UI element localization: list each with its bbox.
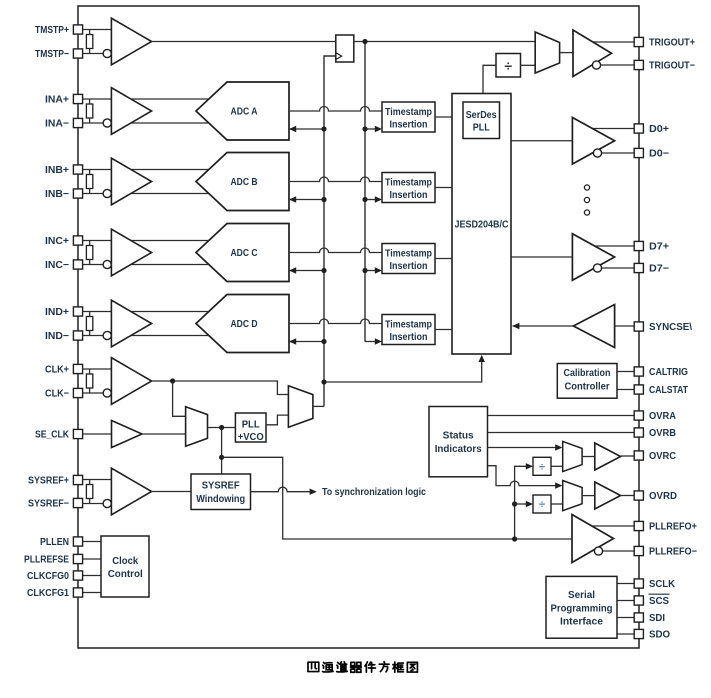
pin PLLEN <box>73 537 82 546</box>
svg-text:ADC C: ADC C <box>231 248 258 259</box>
junction channel B at clock bus <box>321 197 326 202</box>
inverting-input bubble of IND buffer <box>103 331 111 339</box>
pin SCS <box>634 596 643 605</box>
pin CALTRIG <box>634 367 643 376</box>
wire resistor top lead <box>89 369 91 374</box>
resistor IND termination <box>86 317 92 331</box>
wire Calibration Controller to CALTRIG <box>617 371 635 373</box>
wire Timestamp Insertion A to JESD204 block <box>435 116 452 118</box>
wire INB positive signal to ADC <box>83 169 221 171</box>
pin D7+ <box>634 241 643 250</box>
pin SYSREF- <box>73 498 82 507</box>
resistor input termination <box>86 485 92 499</box>
svg-text:Status: Status <box>443 430 474 441</box>
buffer amplifier CLK <box>111 358 151 405</box>
arrow to synchronization logic <box>310 489 317 495</box>
ADC D block <box>196 295 289 353</box>
pin SE_CLK <box>73 429 82 438</box>
buffer amplifier INA <box>111 88 151 135</box>
buffer OVRC output driver <box>595 443 621 470</box>
buffer amplifier INB <box>111 158 151 205</box>
svg-text:Windowing: Windowing <box>196 494 245 505</box>
output driver PLLREFO <box>572 515 614 563</box>
svg-text:TMSTP−: TMSTP− <box>35 49 69 60</box>
svg-text:SYNCSE\: SYNCSE\ <box>649 322 692 333</box>
svg-text:PLLEN: PLLEN <box>40 537 69 548</box>
device boundary box <box>78 6 639 648</box>
wire mux A output to PLL+VCO <box>208 427 236 429</box>
wire SPI to SCS <box>617 600 635 602</box>
pin TRIGOUT- <box>634 60 643 69</box>
wire resistor leads INC <box>89 241 91 265</box>
block Timestamp Insertion C <box>382 244 435 274</box>
resistor INA termination <box>86 104 92 118</box>
pin TMSTP+ <box>73 25 82 34</box>
block Serial Programming Interface <box>546 576 617 638</box>
svg-text:Timestamp: Timestamp <box>385 249 432 260</box>
pin INC- <box>73 260 82 269</box>
svg-text:CLK−: CLK− <box>45 389 69 400</box>
wire clock bus to ADC D clock input <box>289 341 324 343</box>
pin INA- <box>73 118 82 127</box>
wire SPI to SDI <box>617 617 635 619</box>
pin INB- <box>73 189 82 198</box>
wire clock branch down to SYSREF windowing <box>221 428 223 475</box>
wire divider feed branch to divider 2 <box>515 503 527 505</box>
arrow into OVRD mux upper input <box>555 482 562 488</box>
pin OVRC <box>634 451 643 460</box>
svg-text:Calibration: Calibration <box>564 368 611 379</box>
wire inverting input <box>83 503 121 505</box>
svg-text:ADC B: ADC B <box>231 177 258 188</box>
wire clock bus to JESD204 bottom <box>324 361 482 383</box>
svg-text:SYSREF: SYSREF <box>202 481 240 492</box>
buffer OVRD output driver <box>595 482 621 509</box>
pin PLLREFO+ <box>634 521 643 530</box>
pin OVRD <box>634 491 643 500</box>
svg-text:ADC D: ADC D <box>231 319 258 330</box>
divider block 2 (OVRD) <box>533 495 551 513</box>
wire Status Indicators to OVRA <box>488 415 635 417</box>
svg-text:PLLREFO−: PLLREFO− <box>649 547 697 558</box>
wire divider feed from clock line up to dividers <box>515 466 527 539</box>
ADC B block <box>196 153 289 211</box>
junction channel B at timestamp bus <box>362 197 367 202</box>
wire non-inverting input <box>83 368 121 370</box>
pin OVRA <box>634 411 643 420</box>
pin PLLREFSE <box>73 554 82 563</box>
wire SerDes PLL to divider <box>483 65 496 102</box>
wire D7+ output <box>585 245 635 247</box>
svg-text:OVRC: OVRC <box>649 451 676 462</box>
wire inverting input <box>83 53 121 55</box>
block Timestamp Insertion D <box>382 315 435 345</box>
svg-text:TRIGOUT+: TRIGOUT+ <box>649 38 695 49</box>
svg-text:Programming: Programming <box>551 603 613 614</box>
wire PLLREFO- output <box>594 550 635 552</box>
buffer amplifier IND <box>111 300 151 347</box>
pin INB+ <box>73 165 82 174</box>
pin IND+ <box>73 307 82 316</box>
svg-text:INA+: INA+ <box>45 95 69 106</box>
inverting output bubble PLLREFO- <box>594 547 602 555</box>
svg-text:OVRB: OVRB <box>649 428 676 439</box>
wire INC positive signal to ADC <box>83 240 221 242</box>
svg-text:OVRD: OVRD <box>649 491 677 502</box>
svg-text:CLKCFG1: CLKCFG1 <box>27 588 69 599</box>
wire TRIGOUT- output <box>594 64 635 66</box>
wire resistor leads IND <box>89 312 91 336</box>
wire CLKCFG1 pin to Clock Control <box>83 592 102 594</box>
wire SPI to SDO <box>617 633 635 635</box>
wire timestamp bus to Timestamp Insertion B <box>365 199 377 201</box>
pin OVRB <box>634 428 643 437</box>
mux OVRD select <box>563 481 582 511</box>
svg-text:SDI: SDI <box>649 613 665 624</box>
pin CLK+ <box>73 364 82 373</box>
svg-text:D7+: D7+ <box>649 242 669 253</box>
svg-text:INC−: INC− <box>45 260 69 271</box>
wire clock bus to ADC C clock input <box>289 270 324 272</box>
arrow into ADC C right edge <box>289 267 296 273</box>
block Calibration Controller <box>557 364 617 399</box>
svg-text:SCLK: SCLK <box>649 579 676 590</box>
clock wedge on flip-flop <box>336 53 342 60</box>
wire resistor leads INA <box>89 99 91 123</box>
arrow into JESD204 bottom <box>479 355 485 362</box>
inverting output bubble TRIGOUT- <box>592 61 600 69</box>
svg-text:D0+: D0+ <box>649 124 669 135</box>
svg-text:Clock: Clock <box>112 556 138 567</box>
pin CLKCFG0 <box>73 571 82 580</box>
wire PLLREFO+ output <box>585 525 635 527</box>
wire Timestamp Insertion C to JESD204 block <box>435 258 452 260</box>
pin TRIGOUT+ <box>634 37 643 46</box>
resistor INC termination <box>86 246 92 260</box>
arrow into ADC A right edge <box>289 126 296 132</box>
svg-text:INA−: INA− <box>45 119 69 130</box>
svg-text:TRIGOUT−: TRIGOUT− <box>649 61 695 72</box>
block Clock Control <box>101 536 149 597</box>
wire timestamp bus to Timestamp Insertion A <box>365 128 377 130</box>
wire D0- output <box>592 152 635 154</box>
wire JESD204 to D0 driver <box>511 140 573 142</box>
pin CLKCFG1 <box>73 588 82 597</box>
mux A clock source select <box>186 407 208 447</box>
wire mux B output to clock bus <box>313 405 324 407</box>
wire IND positive signal to ADC <box>83 311 221 313</box>
ellipsis dots between D0 and D7 lanes <box>584 185 589 215</box>
wire TMSTP buffer output to trigger output path <box>152 41 536 43</box>
block SerDes PLL <box>463 102 500 139</box>
wire SE_CLK pin to buffer <box>83 433 112 435</box>
wire resistor bottom lead <box>89 388 91 393</box>
svg-text:SYSREF−: SYSREF− <box>28 499 69 510</box>
block SYSREF Windowing <box>191 474 251 510</box>
wire Status Indicators to OVRB <box>488 432 635 434</box>
pin SDO <box>634 629 643 638</box>
wire SYSREF windowing output to synchronization logic (hop over clock line) <box>251 487 310 492</box>
wire resistor top lead <box>89 480 91 485</box>
wire Timestamp Insertion B to JESD204 block <box>435 187 452 189</box>
output driver D7 <box>572 234 614 281</box>
buffer amplifier INC <box>111 229 151 276</box>
junction divider feed at clock line <box>512 536 517 541</box>
junction channel D at clock bus <box>321 339 326 344</box>
mux trigger output select <box>535 32 559 73</box>
pin CALSTAT <box>634 385 643 394</box>
buffer SE_CLK <box>112 421 143 448</box>
wire resistor bottom lead <box>89 499 91 504</box>
resistor INB termination <box>86 175 92 189</box>
inverting output bubble D7- <box>593 264 601 272</box>
wire PLLREFSE pin to Clock Control <box>83 558 102 560</box>
arrow into ADC D right edge <box>289 338 296 344</box>
junction mux A output node <box>219 425 224 430</box>
svg-text:CLKCFG0: CLKCFG0 <box>27 571 69 582</box>
svg-text:INB−: INB− <box>45 189 69 200</box>
pin D7- <box>634 263 643 272</box>
inverting-input bubble of INB buffer <box>103 189 111 197</box>
arrow into divider 2 <box>526 501 533 507</box>
pin SCLK <box>634 579 643 588</box>
wire D0+ output <box>585 128 635 130</box>
arrow into Timestamp Insertion B <box>375 196 382 202</box>
block PLL+VCO <box>235 413 266 443</box>
resistor input termination <box>86 35 92 49</box>
svg-text:Indicators: Indicators <box>435 444 482 455</box>
junction flip-flop output node <box>362 39 367 44</box>
wire JESD204 to D7 driver <box>511 256 573 258</box>
pin IND- <box>73 331 82 340</box>
output driver D0 <box>572 117 614 164</box>
svg-text:ADC A: ADC A <box>231 107 258 118</box>
wire INB negative signal to ADC <box>83 193 221 195</box>
block Timestamp Insertion A <box>382 102 435 132</box>
svg-text:PLL: PLL <box>242 420 260 431</box>
inverting-input bubble of INC buffer <box>103 260 111 268</box>
junction divider feed at divider 2 <box>512 501 517 506</box>
wire non-inverting input <box>83 479 121 481</box>
svg-text:Insertion: Insertion <box>390 332 428 343</box>
wire SYNCSE buffer output into JESD204 <box>513 325 575 327</box>
svg-text:IND−: IND− <box>45 331 69 342</box>
pin SYSREF+ <box>73 475 82 484</box>
svg-text:PLLREFO+: PLLREFO+ <box>649 522 697 533</box>
wire divider 2 to OVRD mux lower input <box>551 503 563 505</box>
arrow into divider 1 <box>526 463 533 469</box>
svg-text:CALTRIG: CALTRIG <box>649 367 688 378</box>
svg-text:÷: ÷ <box>539 461 545 473</box>
svg-text:CLK+: CLK+ <box>45 365 69 376</box>
block JESD204B/C <box>452 94 511 355</box>
wire OVRD driver to pin <box>621 495 635 497</box>
arrow into Timestamp Insertion A <box>375 126 382 132</box>
wire non-inverting input <box>83 29 121 31</box>
wire ADC D output to Timestamp Insertion (hops over buses) <box>289 319 382 323</box>
pin D0- <box>634 148 643 157</box>
arrow into JESD204 right edge (SYNCSE) <box>512 323 519 329</box>
wire clock bus from clock mux up to flip-flop clock input <box>324 56 336 406</box>
wire Status Indicators to OVRC mux <box>488 447 557 449</box>
inverting-input bubble of TMSTP buffer <box>103 49 111 57</box>
svg-text:PLL: PLL <box>473 123 490 134</box>
arrow into Timestamp Insertion C <box>375 267 382 273</box>
pin INA+ <box>73 94 82 103</box>
wire resistor top lead <box>89 30 91 35</box>
svg-text:+VCO: +VCO <box>238 432 264 443</box>
wire ADC C output to Timestamp Insertion (hops over buses) <box>289 248 382 253</box>
svg-text:SYSREF+: SYSREF+ <box>28 476 69 487</box>
svg-text:Insertion: Insertion <box>390 120 428 131</box>
junction channel C at clock bus <box>321 268 326 273</box>
wire trigger mux to TRIGOUT driver <box>560 52 573 54</box>
wire IND negative signal to ADC <box>83 335 221 337</box>
wire clock branch to PLLREFO path <box>222 457 572 539</box>
svg-text:Timestamp: Timestamp <box>385 178 432 189</box>
ADC A block <box>196 82 289 140</box>
wire timestamp bus to Timestamp Insertion C <box>365 270 377 272</box>
wire CLKCFG0 pin to Clock Control <box>83 575 102 577</box>
svg-text:D0−: D0− <box>649 149 669 160</box>
wire divider to trigger mux <box>521 64 536 66</box>
wire clock bus to ADC B clock input <box>289 199 324 201</box>
output driver TRIGOUT <box>573 30 612 77</box>
divider block (trigger clock divide) <box>496 54 521 78</box>
wire PLLEN pin to Clock Control <box>83 541 102 543</box>
svg-text:TMSTP+: TMSTP+ <box>35 25 69 36</box>
junction channel C at timestamp bus <box>362 268 367 273</box>
buffer amplifier SYSREF <box>111 468 151 515</box>
inverting-input bubble of INA buffer <box>103 119 111 127</box>
pin CLK- <box>73 388 82 397</box>
arrow into ADC B right edge <box>289 196 296 202</box>
wire PLL+VCO output to clock mux B lower input <box>266 415 288 425</box>
buffer SYNCSE input (points left) <box>573 305 614 348</box>
wire SE_CLK buffer to clock mux A lower input <box>142 433 186 435</box>
wire INC negative signal to ADC <box>83 264 221 266</box>
inverting-input bubble of SYSREF buffer <box>103 499 111 507</box>
wire SYNCSE pin to buffer <box>615 325 635 327</box>
wire inverting input <box>83 392 121 394</box>
svg-text:Timestamp: Timestamp <box>385 107 432 118</box>
wire D7- output <box>592 267 635 269</box>
wire SYSREF buffer to SYSREF Windowing <box>152 491 191 493</box>
flip-flop timestamp capture register U1 <box>336 35 354 62</box>
svg-text:SCS: SCS <box>649 596 669 607</box>
junction CLK output node <box>170 378 175 383</box>
svg-text:OVRA: OVRA <box>649 411 676 422</box>
inverting output bubble D0- <box>593 149 601 157</box>
wire resistor leads INB <box>89 170 91 194</box>
pin SYNCSE\ <box>634 322 643 331</box>
wire INA negative signal to ADC <box>83 122 221 124</box>
block Timestamp Insertion B <box>382 173 435 203</box>
wire timestamp bus to Timestamp Insertion D <box>365 341 377 343</box>
svg-text:Control: Control <box>108 569 143 580</box>
ADC C block <box>196 224 289 282</box>
svg-text:To synchronization logic: To synchronization logic <box>322 487 426 498</box>
junction channel A at timestamp bus <box>362 126 367 131</box>
svg-text:÷: ÷ <box>539 499 545 511</box>
inverting-input bubble of CLK buffer <box>103 389 111 397</box>
svg-text:Interface: Interface <box>560 617 603 628</box>
wire OVRC driver to pin <box>621 455 635 457</box>
arrow into Timestamp Insertion D <box>375 338 382 344</box>
junction clock bus / JESD feed <box>321 379 326 384</box>
wire Timestamp Insertion D to JESD204 block <box>435 329 452 331</box>
svg-text:Insertion: Insertion <box>390 190 428 201</box>
wire divider 1 to OVRC mux lower input <box>551 465 563 467</box>
pin INC+ <box>73 236 82 245</box>
arrow into OVRC mux upper input <box>555 444 562 450</box>
mux OVRC select <box>563 441 582 471</box>
wire OVRD mux to OVRD driver <box>582 495 595 497</box>
wire CLK buffer output to clock mux B upper input <box>152 381 289 395</box>
caption 四通道器件方框图 (quad channel device block diagram) <box>308 662 417 673</box>
svg-text:PLLREFSE: PLLREFSE <box>24 555 69 566</box>
svg-text:JESD204B/C: JESD204B/C <box>455 220 509 231</box>
divider block 1 (OVRC) <box>533 457 551 475</box>
overline on SCS label <box>649 593 670 595</box>
svg-text:Controller: Controller <box>565 382 610 393</box>
pin PLLREFO- <box>634 546 643 555</box>
svg-text:Insertion: Insertion <box>390 261 428 272</box>
wire timestamp bus from flip-flop output down to channel rows <box>364 42 366 342</box>
svg-text:SE_CLK: SE_CLK <box>35 430 70 441</box>
svg-text:INB+: INB+ <box>45 165 69 176</box>
svg-text:Serial: Serial <box>568 590 595 601</box>
junction clock branch node <box>219 455 224 460</box>
wire clock bus to ADC A clock input <box>289 128 324 130</box>
svg-text:Timestamp: Timestamp <box>385 320 432 331</box>
wire Status Indicators to OVRD mux (hop over divider feed) <box>488 466 557 486</box>
svg-text:÷: ÷ <box>504 58 512 74</box>
svg-text:D7−: D7− <box>649 264 669 275</box>
wire resistor bottom lead <box>89 49 91 54</box>
wire TRIGOUT+ output <box>585 41 635 43</box>
buffer amplifier TMSTP input <box>111 18 151 65</box>
junction channel A at clock bus <box>321 126 326 131</box>
wire Calibration Controller to CALSTAT <box>617 389 635 391</box>
wire ADC A output to Timestamp Insertion (hops over buses) <box>289 107 382 112</box>
wire INA positive signal to ADC <box>83 98 221 100</box>
resistor input termination <box>86 374 92 388</box>
pin SDI <box>634 613 643 622</box>
wire ADC B output to Timestamp Insertion (hops over buses) <box>289 177 382 182</box>
svg-text:INC+: INC+ <box>45 236 69 247</box>
pin D0+ <box>634 124 643 133</box>
svg-text:IND+: IND+ <box>45 307 69 318</box>
svg-text:CALSTAT: CALSTAT <box>649 385 688 396</box>
wire CLK node down to clock mux A upper input <box>173 381 186 416</box>
pin TMSTP- <box>73 49 82 58</box>
svg-text:SDO: SDO <box>649 630 670 641</box>
wire SPI to SCLK <box>617 583 635 585</box>
block Status Indicators <box>429 407 488 477</box>
mux B PLL bypass select <box>288 386 313 427</box>
svg-text:SerDes: SerDes <box>466 110 497 121</box>
wire OVRC mux to OVRC driver <box>582 456 595 458</box>
